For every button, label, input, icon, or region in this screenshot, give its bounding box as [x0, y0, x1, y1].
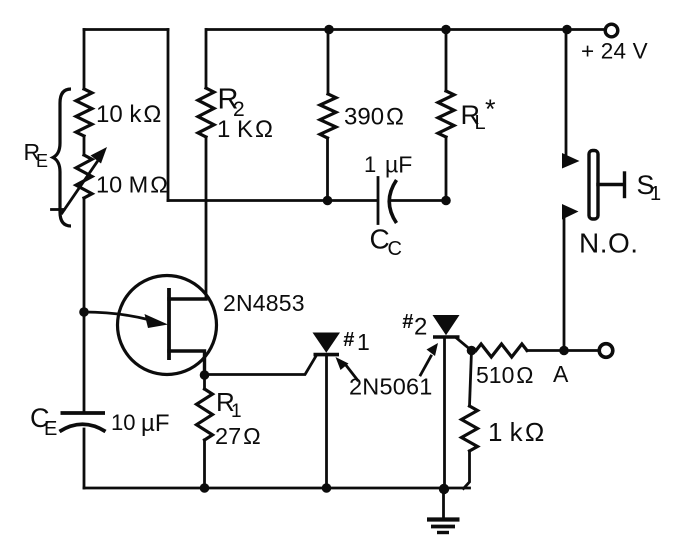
junction: node A / S1 lower — [559, 346, 569, 356]
capacitor Cc 1uF — [378, 178, 397, 224]
thyristor SCR2 cathode lead — [443, 338, 446, 490]
wire: loop from RE top down to coupling rail — [167, 30, 170, 201]
label: Cc designator — [370, 224, 402, 261]
svg-text:*: * — [485, 94, 496, 124]
junction: S1 branch on +24 rail — [562, 25, 572, 35]
svg-text:1 k Ω: 1 k Ω — [488, 417, 544, 447]
switch S1 lower contact arrow — [562, 204, 579, 220]
wire: bottom ground rail — [84, 487, 470, 490]
junction: B1 node — [200, 370, 210, 380]
junction: RL bottom / Cc right node — [441, 196, 451, 206]
wire: left vertical rail — [83, 30, 86, 489]
svg-text:27 Ω: 27 Ω — [215, 423, 261, 449]
resistor RL — [438, 30, 454, 201]
capacitor CE 10uF — [60, 413, 106, 432]
label: node A — [553, 361, 569, 387]
resistor RE-fixed 10 kOhm — [76, 89, 92, 136]
junction: SCR1 cathode on ground rail — [322, 483, 332, 493]
svg-text:N.O.: N.O. — [579, 228, 639, 259]
resistor 1 kOhm — [462, 351, 478, 489]
arrow: 2N5061 to SCR1 — [336, 357, 358, 380]
transistor Q1 base bar — [167, 288, 171, 360]
svg-text:#: # — [343, 329, 355, 351]
label: R1 designator — [216, 387, 242, 422]
transistor Q1 base-1 lead — [169, 351, 205, 375]
terminal: output A circle — [599, 344, 613, 358]
terminal: +24V supply circle — [605, 24, 618, 37]
thyristor SCR1 cathode bar — [314, 353, 340, 357]
label: #1 designator — [343, 329, 370, 355]
switch S1 actuator stem — [598, 173, 625, 197]
wire: horizontal rail Cc to RL branch — [391, 199, 446, 202]
svg-text:10: 10 — [111, 410, 135, 435]
svg-text:1: 1 — [650, 183, 661, 205]
label: #2 designator — [402, 311, 427, 341]
label: R2 designator — [218, 84, 245, 122]
thyristor SCR2 gate lead — [457, 339, 472, 351]
junction: 390 bottom on coupling rail — [323, 196, 333, 206]
svg-text:1: 1 — [231, 401, 242, 422]
svg-text:1: 1 — [357, 329, 370, 355]
svg-text:1 K Ω: 1 K Ω — [217, 116, 273, 143]
junction: emitter node on left rail — [79, 307, 89, 317]
svg-text:390 Ω: 390 Ω — [344, 104, 404, 131]
junction: R1 bottom on ground rail — [200, 483, 210, 493]
junction: SCR2 cathode / ground node — [439, 484, 449, 494]
label: 510 Ohm value — [476, 362, 534, 388]
switch S1 lower lead — [563, 218, 566, 351]
svg-text:+ 24 V: + 24 V — [581, 39, 648, 64]
label: 10 kOhm value — [96, 101, 161, 128]
thyristor SCR1 anode triangle — [313, 333, 341, 353]
junction: RL top on +24 rail — [441, 25, 451, 35]
transistor Q1 2N4853 UJT circle — [118, 276, 217, 375]
svg-text:E: E — [44, 418, 57, 440]
thyristor SCR2 anode triangle — [433, 315, 460, 335]
ground symbol — [427, 489, 460, 533]
resistor R2 — [198, 30, 214, 300]
svg-text:2N4853: 2N4853 — [223, 290, 305, 316]
svg-text:#: # — [402, 311, 414, 333]
svg-text:10 M Ω: 10 M Ω — [96, 172, 168, 198]
svg-text:510 Ω: 510 Ω — [476, 362, 534, 388]
wire: top +24V rail left segment — [84, 28, 168, 31]
svg-text:C: C — [388, 238, 402, 260]
label: CE designator — [30, 403, 57, 440]
resistor 390 Ohm — [320, 30, 336, 201]
svg-text:2: 2 — [414, 314, 427, 341]
label: 1 KOhm value — [217, 116, 273, 143]
label: S1 designator — [637, 170, 662, 205]
resistor 510 Ohm — [476, 344, 599, 357]
switch S1 plunger bar — [589, 151, 598, 220]
wire: horizontal rail y=200.5 to Cc — [168, 199, 377, 202]
junction: SCR2 gate node — [467, 346, 477, 356]
resistor R1 27 Ohm — [197, 375, 213, 488]
label: RE designator — [24, 139, 49, 171]
svg-text:1: 1 — [364, 152, 376, 177]
junction: 390 top on +24 rail — [324, 25, 334, 35]
thyristor SCR2 cathode bar — [433, 335, 460, 339]
svg-text:E: E — [36, 151, 48, 171]
switch S1 upper contact arrow — [562, 153, 580, 169]
label: 10 MOhm value — [96, 172, 168, 198]
arrow: variable-resistor wiper arrow — [52, 147, 108, 213]
wire: B1 node to SCR1 gate — [205, 356, 317, 375]
svg-text:A: A — [553, 361, 569, 387]
svg-text:µF: µF — [141, 410, 170, 437]
label: 2N4853 type — [223, 290, 305, 316]
arrow: 2N5061 to SCR2 — [421, 343, 439, 375]
wire: top +24V rail main segment — [207, 28, 605, 31]
label: RL* designator — [461, 94, 497, 134]
transistor Q1 emitter lead with arrow — [84, 312, 168, 328]
label: 27 Ohm value — [215, 423, 261, 449]
svg-text:µF: µF — [385, 152, 412, 178]
svg-text:L: L — [475, 112, 486, 134]
switch S1 upper lead — [565, 30, 568, 157]
resistor RE-variable 10 MOhm — [76, 155, 92, 198]
label: 390 Ohm value — [344, 104, 404, 131]
label: 1 uF value — [364, 152, 412, 178]
brace: RE grouping brace — [53, 89, 71, 226]
transistor Q1 base-2 lead — [169, 297, 206, 300]
label: + 24 V — [581, 39, 648, 64]
label: 10 uF value — [111, 410, 170, 437]
svg-text:2N5061: 2N5061 — [349, 374, 433, 400]
label: 1 kOhm value — [488, 417, 544, 447]
thyristor SCR1 cathode lead — [325, 355, 328, 488]
label: N.O. normally open — [579, 228, 639, 259]
svg-text:10 k Ω: 10 k Ω — [96, 101, 161, 128]
label: 2N5061 type — [349, 374, 433, 400]
